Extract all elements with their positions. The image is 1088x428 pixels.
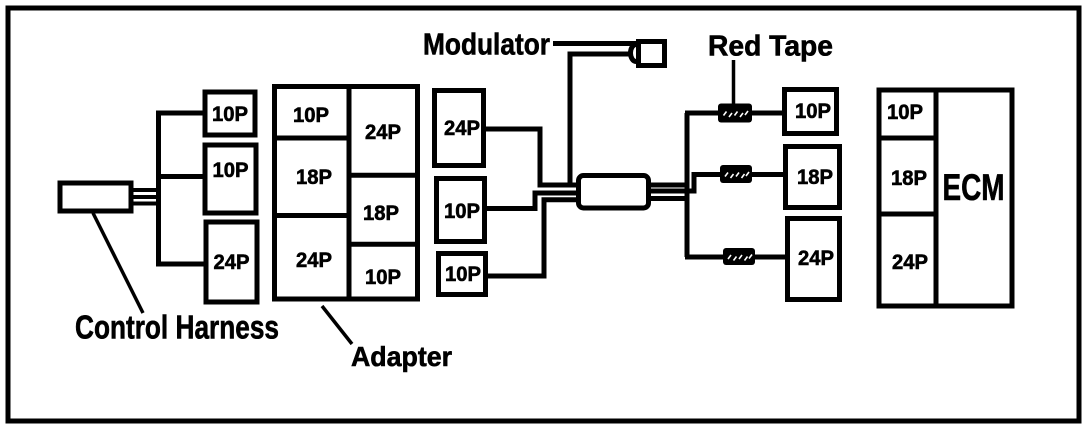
svg-text:Modulator: Modulator	[423, 27, 550, 62]
svg-text:10P: 10P	[444, 199, 480, 223]
ECM vertical divider	[934, 90, 939, 306]
svg-text:10P: 10P	[445, 262, 481, 286]
connector 10P adapter bottom	[439, 254, 486, 295]
ECM block outline	[879, 90, 1012, 306]
svg-text:10P: 10P	[213, 158, 249, 182]
ECM cell dividers	[879, 136, 936, 141]
svg-text:24P: 24P	[798, 246, 834, 270]
svg-text:10P: 10P	[212, 102, 248, 126]
svg-text:18P: 18P	[363, 201, 399, 225]
connector 24P adapter side	[435, 91, 484, 166]
connector 24P harness bottom	[206, 222, 257, 302]
adapter block outline	[275, 87, 418, 300]
connector 24P ECM side bottom	[788, 219, 840, 300]
wire adapter 10P bottom to junction	[488, 200, 580, 276]
svg-text:24P: 24P	[444, 116, 480, 140]
wire Modulator label to connector	[553, 41, 648, 46]
junction inline coupler	[579, 176, 649, 209]
svg-text:24P: 24P	[214, 250, 250, 274]
svg-text:10P: 10P	[365, 265, 401, 289]
svg-text:ECM: ECM	[943, 167, 1005, 208]
wire bus to 10P middle	[156, 174, 206, 179]
svg-text:10P: 10P	[795, 99, 831, 123]
svg-text:24P: 24P	[296, 248, 332, 272]
wire junction to top branch (via right bus)	[648, 183, 687, 188]
wire junction to 18P ECM-side (middle branch)	[648, 175, 786, 192]
wire bus to 10P top	[156, 111, 206, 116]
red tape mark top	[718, 104, 752, 123]
adapter right dividers	[349, 173, 418, 178]
svg-text:10P: 10P	[293, 103, 329, 127]
adapter vertical divider	[347, 87, 352, 300]
svg-text:10P: 10P	[887, 100, 923, 124]
svg-text:Red Tape: Red Tape	[708, 31, 833, 63]
wire adapter 24P to junction	[486, 129, 580, 185]
red tape mark middle	[720, 165, 752, 183]
connector 10P harness top	[205, 92, 255, 135]
svg-text:Control Harness: Control Harness	[75, 309, 279, 346]
wire junction to bottom branch (via right bus)	[648, 196, 689, 201]
leader line Red Tape	[732, 60, 736, 104]
connector 10P adapter middle	[437, 179, 485, 242]
svg-text:18P: 18P	[891, 166, 927, 190]
svg-text:24P: 24P	[365, 120, 401, 144]
wire to 24P ECM-side (bottom branch)	[685, 255, 790, 260]
wire Modulator connector down to junction	[570, 54, 634, 187]
connector 10P harness middle	[205, 145, 256, 213]
wire bundle from Control Harness connector	[131, 190, 161, 204]
connector Modulator	[631, 42, 665, 66]
wire to 10P ECM-side (top branch)	[685, 111, 785, 116]
leader line Control Harness	[93, 213, 143, 313]
connector 10P ECM side top	[785, 90, 837, 134]
svg-text:Adapter: Adapter	[351, 341, 452, 372]
wire vertical bus (left)	[156, 111, 161, 264]
adapter left dividers	[275, 136, 350, 141]
connector 18P ECM side middle	[786, 147, 840, 208]
wire adapter 10P middle to junction	[487, 193, 580, 209]
svg-text:18P: 18P	[797, 165, 833, 189]
svg-text:24P: 24P	[892, 250, 928, 274]
svg-text:18P: 18P	[296, 165, 332, 189]
wire bus to 24P bottom	[156, 262, 207, 267]
leader line Adapter	[322, 306, 352, 344]
red tape mark bottom	[723, 248, 755, 265]
wire right vertical bus	[685, 113, 690, 257]
connector Control Harness plug	[60, 183, 131, 211]
